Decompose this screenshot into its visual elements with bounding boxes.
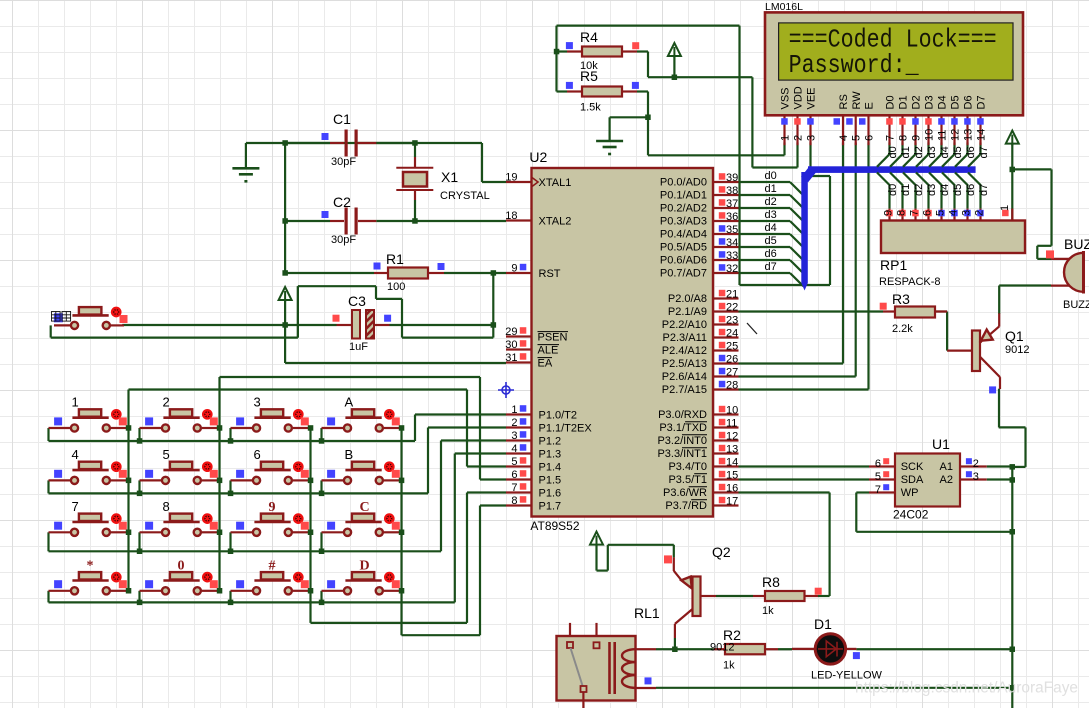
- svg-text:D4: D4: [937, 95, 949, 109]
- svg-text:P0.7/AD7: P0.7/AD7: [660, 268, 707, 280]
- svg-text:28: 28: [726, 380, 738, 392]
- svg-text:14: 14: [975, 129, 987, 141]
- svg-text:SDA: SDA: [901, 474, 924, 486]
- svg-text:d2: d2: [913, 184, 925, 196]
- svg-text:16: 16: [726, 483, 738, 495]
- svg-text:29: 29: [505, 326, 517, 338]
- svg-text:VEE: VEE: [806, 87, 818, 109]
- svg-text:1: 1: [511, 404, 517, 416]
- svg-text:P0.3/AD3: P0.3/AD3: [660, 216, 707, 228]
- svg-text:24: 24: [726, 328, 738, 340]
- svg-text:35: 35: [726, 224, 738, 236]
- svg-text:BUZ1: BUZ1: [1064, 236, 1089, 252]
- svg-text:12: 12: [726, 431, 738, 443]
- svg-text:P3.4/T0: P3.4/T0: [668, 461, 707, 473]
- svg-text:PSEN: PSEN: [538, 332, 568, 344]
- svg-text:U1: U1: [932, 436, 950, 452]
- svg-text:d3: d3: [765, 209, 777, 221]
- svg-text:d4: d4: [939, 146, 951, 158]
- svg-text:4: 4: [838, 135, 850, 141]
- svg-text:B: B: [345, 447, 354, 462]
- svg-text:U2: U2: [529, 149, 547, 165]
- svg-text:P2.5/A13: P2.5/A13: [662, 358, 707, 370]
- svg-text:26: 26: [726, 354, 738, 366]
- svg-text:D7: D7: [976, 95, 988, 109]
- svg-text:C2: C2: [333, 194, 351, 210]
- svg-text:6: 6: [875, 458, 881, 470]
- svg-text:11: 11: [936, 130, 948, 141]
- svg-text:P3.5/T1: P3.5/T1: [668, 474, 707, 486]
- svg-text:d6: d6: [765, 248, 777, 260]
- svg-text:d0: d0: [887, 146, 899, 158]
- svg-text:d1: d1: [765, 183, 777, 195]
- svg-text:33: 33: [726, 250, 738, 262]
- svg-text:8: 8: [897, 135, 909, 141]
- svg-text:7: 7: [909, 210, 921, 216]
- svg-text:2.2k: 2.2k: [892, 323, 913, 335]
- svg-text:5: 5: [851, 135, 863, 141]
- svg-text:#: #: [269, 558, 276, 573]
- svg-text:P3.3/INT1: P3.3/INT1: [657, 448, 707, 460]
- svg-text:17: 17: [726, 496, 738, 508]
- svg-text:P0.1/AD1: P0.1/AD1: [660, 190, 707, 202]
- svg-text:P0.6/AD6: P0.6/AD6: [660, 255, 707, 267]
- svg-text:VDD: VDD: [793, 86, 805, 109]
- svg-text:R8: R8: [762, 574, 780, 590]
- svg-text:5: 5: [163, 447, 170, 462]
- svg-text:30pF: 30pF: [331, 234, 356, 246]
- svg-text:P1.3: P1.3: [539, 449, 562, 461]
- svg-text:10: 10: [923, 129, 935, 141]
- svg-text:RP1: RP1: [880, 257, 907, 273]
- svg-text:R5: R5: [580, 68, 598, 84]
- svg-text:D5: D5: [950, 95, 962, 109]
- svg-text:P2.4/A12: P2.4/A12: [662, 345, 707, 357]
- svg-text:d7: d7: [978, 184, 990, 196]
- svg-text:P1.6: P1.6: [539, 488, 562, 500]
- svg-text:P3.6/WR: P3.6/WR: [663, 487, 707, 499]
- svg-text:9: 9: [269, 500, 276, 515]
- svg-text:d0: d0: [765, 170, 777, 182]
- svg-text:D: D: [360, 558, 370, 573]
- svg-text:100: 100: [387, 281, 405, 293]
- svg-text:36: 36: [726, 211, 738, 223]
- svg-text:8: 8: [163, 499, 170, 514]
- svg-text:d1: d1: [900, 184, 912, 196]
- svg-text:21: 21: [726, 289, 738, 301]
- svg-text:6: 6: [922, 210, 934, 216]
- svg-text:d7: d7: [978, 146, 990, 158]
- svg-text:EA: EA: [538, 358, 553, 370]
- svg-text:9: 9: [883, 210, 895, 216]
- svg-text:AT89S52: AT89S52: [530, 519, 579, 533]
- svg-text:RS: RS: [838, 94, 850, 109]
- svg-text:1k: 1k: [723, 660, 735, 672]
- svg-text:12: 12: [949, 129, 961, 141]
- svg-text:10: 10: [726, 405, 738, 417]
- svg-text:34: 34: [726, 237, 738, 249]
- svg-text:C3: C3: [348, 293, 366, 309]
- svg-text:D6: D6: [963, 95, 975, 109]
- svg-text:P0.4/AD4: P0.4/AD4: [660, 229, 707, 241]
- svg-text:d6: d6: [965, 146, 977, 158]
- svg-text:ALE: ALE: [538, 345, 559, 357]
- svg-text:9: 9: [910, 135, 922, 141]
- svg-text:Q1: Q1: [1005, 328, 1024, 344]
- svg-text:X1: X1: [441, 169, 458, 185]
- svg-text:P1.1/T2EX: P1.1/T2EX: [539, 423, 593, 435]
- svg-text:d3: d3: [926, 146, 938, 158]
- svg-text:P1.2: P1.2: [539, 436, 562, 448]
- svg-text:9012: 9012: [1005, 344, 1029, 356]
- svg-text:2: 2: [973, 458, 979, 470]
- svg-text:14: 14: [726, 457, 738, 469]
- svg-text:RESPACK-8: RESPACK-8: [879, 276, 941, 288]
- svg-text:5: 5: [935, 210, 947, 216]
- svg-text:C1: C1: [333, 111, 351, 127]
- svg-text:1k: 1k: [762, 605, 774, 617]
- svg-text:23: 23: [726, 315, 738, 327]
- svg-text:4: 4: [948, 210, 960, 216]
- svg-text:P2.1/A9: P2.1/A9: [668, 306, 707, 318]
- svg-text:XTAL1: XTAL1: [539, 177, 572, 189]
- svg-text:6: 6: [511, 469, 517, 481]
- svg-text:30pF: 30pF: [331, 156, 356, 168]
- svg-text:d6: d6: [965, 184, 977, 196]
- svg-text:d5: d5: [765, 235, 777, 247]
- svg-text:RST: RST: [539, 268, 561, 280]
- svg-text:d3: d3: [926, 184, 938, 196]
- svg-text:3: 3: [805, 135, 817, 141]
- svg-text:D0: D0: [885, 95, 897, 109]
- svg-text:CRYSTAL: CRYSTAL: [440, 190, 490, 202]
- svg-text:P3.2/INT0: P3.2/INT0: [657, 435, 707, 447]
- svg-text:6: 6: [254, 447, 261, 462]
- svg-text:3: 3: [254, 395, 261, 410]
- svg-text:9012: 9012: [710, 642, 734, 654]
- svg-text:8: 8: [896, 210, 908, 216]
- svg-text:RW: RW: [851, 91, 863, 110]
- svg-text:5: 5: [511, 456, 517, 468]
- svg-text:22: 22: [726, 302, 738, 314]
- svg-text:6: 6: [863, 135, 875, 141]
- svg-text:P2.7/A15: P2.7/A15: [662, 384, 707, 396]
- svg-text:P3.0/RXD: P3.0/RXD: [658, 409, 707, 421]
- svg-text:Q2: Q2: [712, 544, 731, 560]
- svg-text:32: 32: [726, 263, 738, 275]
- svg-text:R4: R4: [580, 29, 598, 45]
- svg-text:d7: d7: [765, 261, 777, 273]
- svg-text:A: A: [345, 395, 354, 410]
- svg-text:d2: d2: [913, 146, 925, 158]
- svg-text:P1.0/T2: P1.0/T2: [539, 410, 578, 422]
- svg-text:0: 0: [178, 558, 185, 573]
- svg-text:P1.4: P1.4: [539, 462, 562, 474]
- svg-text:d5: d5: [952, 184, 964, 196]
- svg-text:38: 38: [726, 185, 738, 197]
- svg-text:1.5k: 1.5k: [580, 102, 601, 114]
- svg-text:https://blog.csdn.net/AuroraFa: https://blog.csdn.net/AuroraFaye: [855, 680, 1078, 697]
- svg-text:d0: d0: [887, 184, 899, 196]
- svg-text:5: 5: [875, 471, 881, 483]
- svg-text:VSS: VSS: [780, 87, 792, 109]
- svg-text:Password:_: Password:_: [789, 50, 919, 80]
- svg-text:4: 4: [511, 443, 517, 455]
- svg-text:30: 30: [505, 339, 517, 351]
- svg-text:SCK: SCK: [901, 461, 924, 473]
- svg-text:39: 39: [726, 172, 738, 184]
- svg-text:WP: WP: [901, 487, 919, 499]
- svg-text:15: 15: [726, 470, 738, 482]
- svg-text:E: E: [864, 102, 876, 109]
- svg-text:7: 7: [875, 484, 881, 496]
- svg-text:9: 9: [511, 263, 517, 275]
- svg-text:C: C: [360, 500, 370, 515]
- svg-text:7: 7: [511, 482, 517, 494]
- svg-text:19: 19: [505, 172, 517, 184]
- svg-text:1: 1: [72, 395, 79, 410]
- svg-text:BUZZER: BUZZER: [1063, 299, 1089, 311]
- svg-text:2: 2: [163, 395, 170, 410]
- svg-text:d2: d2: [765, 196, 777, 208]
- svg-text:2: 2: [511, 417, 517, 429]
- svg-text:d4: d4: [939, 184, 951, 196]
- svg-text:18: 18: [505, 210, 517, 222]
- svg-text:3: 3: [961, 210, 973, 216]
- svg-text:13: 13: [726, 444, 738, 456]
- svg-text:D1: D1: [814, 616, 832, 632]
- svg-text:25: 25: [726, 341, 738, 353]
- svg-text:P1.7: P1.7: [539, 501, 562, 513]
- svg-text:R3: R3: [892, 291, 910, 307]
- svg-text:P0.2/AD2: P0.2/AD2: [660, 203, 707, 215]
- svg-text:7: 7: [72, 499, 79, 514]
- svg-text:7: 7: [884, 135, 896, 141]
- svg-text:1uF: 1uF: [349, 341, 368, 353]
- svg-text:P2.6/A14: P2.6/A14: [662, 371, 707, 383]
- svg-text:P0.5/AD5: P0.5/AD5: [660, 242, 707, 254]
- svg-text:24C02: 24C02: [893, 508, 929, 522]
- svg-text:3: 3: [511, 430, 517, 442]
- svg-text:P2.2/A10: P2.2/A10: [662, 319, 707, 331]
- svg-text:D3: D3: [924, 95, 936, 109]
- svg-text:P2.3/A11: P2.3/A11: [663, 332, 707, 344]
- svg-text:d1: d1: [900, 146, 912, 158]
- svg-text:13: 13: [962, 129, 974, 141]
- svg-text:3: 3: [973, 471, 979, 483]
- svg-text:P1.5: P1.5: [539, 475, 562, 487]
- svg-text:D2: D2: [911, 95, 923, 109]
- svg-text:31: 31: [505, 352, 517, 364]
- svg-text:P2.0/A8: P2.0/A8: [668, 293, 707, 305]
- svg-text:P3.1/TXD: P3.1/TXD: [659, 422, 707, 434]
- svg-text:11: 11: [726, 418, 737, 430]
- svg-text:1: 1: [999, 205, 1011, 211]
- svg-text:D1: D1: [898, 95, 910, 109]
- svg-text:d5: d5: [952, 146, 964, 158]
- svg-text:LM016L: LM016L: [765, 1, 803, 13]
- svg-text:8: 8: [511, 495, 517, 507]
- svg-text:XTAL2: XTAL2: [539, 216, 572, 228]
- svg-text:P3.7/RD: P3.7/RD: [665, 500, 707, 512]
- svg-text:2: 2: [792, 135, 804, 141]
- svg-text:27: 27: [726, 367, 738, 379]
- svg-text:37: 37: [726, 198, 738, 210]
- svg-text:P0.0/AD0: P0.0/AD0: [660, 177, 707, 189]
- svg-text:4: 4: [72, 447, 79, 462]
- svg-text:A1: A1: [940, 461, 953, 473]
- svg-text:*: *: [87, 558, 94, 573]
- svg-text:A2: A2: [940, 474, 953, 486]
- svg-text:1: 1: [779, 135, 791, 141]
- svg-text:R1: R1: [386, 251, 404, 267]
- svg-text:RL1: RL1: [634, 605, 660, 621]
- svg-text:d4: d4: [765, 222, 777, 234]
- svg-text:2: 2: [974, 210, 986, 216]
